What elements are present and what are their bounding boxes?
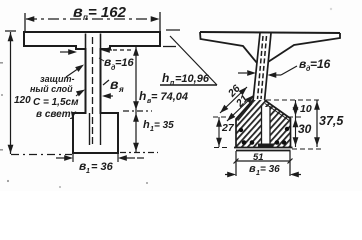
svg-text:=16: =16 (310, 57, 331, 71)
svg-text:ный слой: ный слой (30, 84, 73, 94)
dimension 51 (236, 151, 290, 164)
duct strip inside bulb (258, 106, 274, 147)
svg-text:=16: =16 (115, 57, 135, 69)
dimension вд=16 arrows at web (60, 50, 133, 52)
web lines through flange (86, 34, 101, 50)
svg-text:в: в (110, 76, 119, 92)
label вя with leader (103, 76, 124, 96)
tendon duct (dashed pair) in web (258, 36, 267, 99)
dimension 30 (295, 117, 297, 147)
web lines continuing inside bottom block (90, 113, 101, 145)
svg-text:37,5: 37,5 (319, 114, 344, 128)
svg-text:1: 1 (86, 168, 90, 175)
svg-text:10: 10 (300, 103, 312, 115)
svg-text:27: 27 (221, 122, 235, 134)
svg-text:= 35: = 35 (154, 120, 174, 131)
svg-text:51: 51 (253, 152, 264, 163)
dimension вп=162 label (73, 4, 127, 22)
svg-text:= 36: = 36 (260, 164, 280, 175)
scan speckles (0, 8, 332, 188)
note защитный слой with leader arrow (30, 66, 82, 94)
svg-text:С = 1,5см: С = 1,5см (33, 97, 79, 108)
anchor plate (258, 144, 274, 148)
dimension в1=36 (left figure bottom) (56, 153, 148, 162)
svg-text:h: h (139, 89, 146, 103)
bulb (bottom block) hatched (236, 100, 291, 147)
flange outline with haunches (200, 32, 340, 63)
beam outline (flange, web, bottom block) (24, 32, 160, 153)
svg-text:я: я (118, 85, 124, 94)
web width arrows + label вд=16 (right figure) (238, 66, 297, 75)
label hп=10,96 with underline and leader (160, 30, 217, 87)
svg-text:=10,96: =10,96 (175, 73, 210, 85)
rebars in bulb (239, 127, 289, 145)
dimension 120 (overall height, far left) (5, 31, 72, 155)
bulb outline (234, 100, 293, 151)
inclined dimensions 26 and 21 (220, 87, 254, 121)
svg-text:в: в (249, 163, 256, 175)
dimension в1=36 (right figure) (225, 164, 301, 176)
dimension 37,5 (316, 100, 318, 147)
dimension 27 (left of bulb) (213, 117, 235, 148)
label вд=16 (left figure) (99, 55, 135, 72)
label hв=74,04 (139, 89, 188, 105)
svg-text:h: h (143, 119, 150, 131)
web lines (253, 33, 271, 101)
dimension 10 (295, 100, 297, 117)
svg-text:120: 120 (14, 95, 31, 106)
dimension line hв / h1 (right of left figure) (120, 46, 158, 153)
rebar axis (dashed) in web (92, 37, 94, 145)
dimension вп=162 line (25, 12, 160, 31)
flange bottom dash right of figure (163, 46, 176, 48)
label h1=35 (143, 119, 174, 133)
svg-text:h: h (162, 71, 169, 85)
svg-text:защит-: защит- (40, 74, 75, 84)
svg-text:= 74,04: = 74,04 (151, 91, 188, 103)
note С=1,5см в свету with leader arrow (33, 91, 82, 120)
svg-text:= 36: = 36 (91, 161, 114, 173)
dashed construction lines right of bulb (266, 100, 322, 149)
svg-text:в свету: в свету (36, 109, 76, 120)
svg-text:30: 30 (298, 122, 312, 136)
